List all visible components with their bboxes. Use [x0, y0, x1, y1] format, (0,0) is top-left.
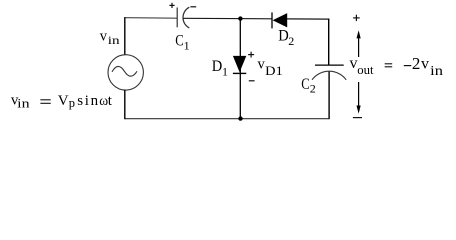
svg-text:out: out	[357, 63, 374, 77]
svg-text:in: in	[430, 63, 443, 78]
svg-text:2: 2	[288, 34, 294, 48]
svg-text:D1: D1	[265, 63, 283, 78]
plus label of C1	[169, 3, 174, 8]
source label vin	[100, 28, 120, 47]
capacitor C2	[312, 65, 346, 80]
reference label D1	[212, 58, 228, 79]
source Vs circle	[108, 55, 143, 90]
voltage label vout	[350, 55, 375, 77]
annotation vout arrow bottom segment	[357, 82, 361, 114]
diode D2	[272, 12, 287, 28]
svg-text:2: 2	[310, 82, 316, 96]
wire bottom rail	[125, 118, 329, 120]
plus label of vD1	[248, 52, 254, 58]
svg-text:D: D	[278, 28, 289, 45]
svg-text:v: v	[350, 55, 358, 72]
equation vin = Vp sin wt	[11, 93, 113, 111]
equals sign of vout equation	[385, 64, 393, 67]
value label C1	[175, 32, 189, 52]
svg-text:sin: sin	[77, 93, 100, 109]
wire top rail left segment	[124, 17, 177, 20]
svg-text:C: C	[175, 32, 183, 49]
svg-text:V: V	[58, 93, 69, 109]
svg-text:2: 2	[412, 54, 421, 73]
capacitor C1	[177, 7, 189, 28]
svg-text:v: v	[100, 28, 108, 44]
svg-text:C: C	[301, 76, 309, 93]
wire left vertical bottom	[124, 90, 126, 119]
wire right vertical top	[328, 19, 330, 65]
svg-text:p: p	[69, 96, 75, 110]
node bottom junction	[238, 116, 242, 120]
wire right vertical bottom	[328, 72, 330, 120]
voltage label vD1	[258, 56, 283, 78]
wire left vertical top	[124, 17, 126, 55]
minus sign of vout equation	[404, 65, 412, 67]
wire top rail middle segment	[183, 17, 272, 20]
minus label of C1	[190, 6, 196, 8]
value label C2	[301, 76, 316, 96]
node top junction	[238, 16, 242, 20]
svg-text:D: D	[212, 58, 223, 75]
svg-text:1: 1	[184, 39, 190, 53]
diode D1	[233, 56, 246, 74]
source sine wave	[112, 66, 137, 76]
wire top rail right segment	[287, 18, 329, 20]
plus label of vout	[353, 15, 360, 21]
reference label D2	[278, 28, 294, 49]
svg-text:in: in	[108, 33, 120, 47]
minus label of vD1	[249, 80, 255, 82]
svg-text:v: v	[421, 56, 429, 73]
wire D1 branch vertical	[239, 19, 241, 119]
minus label of vout	[353, 117, 362, 119]
annotation vout arrow top segment	[357, 30, 361, 57]
svg-text:1: 1	[222, 65, 228, 79]
coefficient 2vin of vout equation	[412, 54, 443, 78]
svg-text:in: in	[17, 97, 30, 111]
equals sign of vin equation	[40, 100, 50, 104]
